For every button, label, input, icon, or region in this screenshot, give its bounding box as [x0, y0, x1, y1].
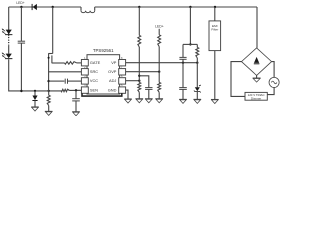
svg-text:LED+: LED+ — [155, 25, 164, 29]
wire R3 upper — [48, 91, 50, 95]
wire VP feed down — [189, 7, 191, 44]
wire R6 upper — [158, 29, 160, 35]
wire C4 upper — [182, 63, 184, 88]
bridge rectifier diamond — [242, 48, 272, 76]
wire top rail down to bridge — [256, 7, 258, 48]
pin box GATE — [81, 60, 88, 66]
wire VCC branch left — [49, 80, 65, 82]
wire GND pin — [126, 90, 128, 99]
capacitor C_vcc — [64, 79, 66, 84]
junction SEN node — [75, 89, 77, 91]
wire R7 lower — [158, 92, 160, 98]
resistor R3 — [47, 95, 50, 105]
ground below EMI filter — [211, 98, 219, 100]
resistor R4 — [138, 35, 141, 47]
wire bridge right to AC — [272, 62, 275, 78]
ground below C_sen — [72, 111, 80, 113]
dotted continuation of LED string — [8, 37, 9, 38]
wire R_sen to SEN node — [69, 89, 81, 91]
wire SEN cap lower — [75, 101, 77, 112]
wire EMI lower — [214, 51, 216, 100]
junction rail / D2 — [34, 90, 36, 92]
wire C1 lower — [20, 43, 22, 91]
capacitor C2 — [145, 87, 152, 89]
ground below GND pin — [124, 98, 132, 100]
wire C3 to VP row — [182, 59, 184, 62]
ground below C2 — [145, 98, 153, 100]
zener diode D3 — [195, 87, 200, 91]
resistor R6 — [158, 35, 161, 47]
wire R5 lower — [138, 92, 140, 98]
svg-text:OVP: OVP — [108, 69, 117, 74]
wire top rail left segment — [9, 6, 81, 8]
svg-text:VP: VP — [111, 60, 117, 65]
wire R_gate to GATE pin — [77, 62, 82, 64]
ground below C4 — [179, 98, 187, 100]
wire top rail right segment — [95, 6, 257, 8]
wire bridge bottom — [256, 75, 258, 78]
wire SEN cap upper — [75, 90, 77, 98]
junction C1 / bottom rail — [20, 90, 22, 92]
resistor R7 — [158, 82, 161, 92]
wire EMI upper — [214, 7, 216, 21]
junction top rail / C1 — [20, 6, 22, 8]
capacitor C1 — [18, 40, 25, 42]
wire VP feed split bar — [183, 43, 197, 45]
wire R4 lower — [138, 47, 140, 81]
wire R3 lower — [48, 106, 50, 112]
svg-text:LED+: LED+ — [16, 1, 24, 5]
junction ADJ / divider — [138, 80, 140, 82]
diode D1 on top rail — [31, 4, 33, 10]
wire C3 upper — [182, 44, 184, 57]
wire C1 upper — [20, 7, 22, 41]
svg-text:Dimmer: Dimmer — [251, 96, 261, 100]
pin box OVP — [119, 69, 126, 75]
bridge diode symbol — [254, 57, 259, 63]
ground below R3 — [45, 110, 53, 112]
wire zener lower — [196, 92, 198, 100]
pin box SEN — [81, 87, 88, 93]
junction R4 / C2 branch — [138, 75, 140, 77]
wire D2 lower — [34, 101, 36, 107]
junction VP / C_vp — [182, 62, 184, 64]
ground below D2 — [31, 106, 39, 108]
svg-text:VCC: VCC — [90, 78, 98, 83]
wire Q1 drain — [52, 7, 54, 54]
wire source down to rail — [48, 72, 50, 91]
pin box GND — [119, 87, 126, 93]
resistor R8 — [196, 47, 199, 58]
svg-text:SEN: SEN — [90, 87, 98, 92]
svg-text:Filter: Filter — [211, 28, 218, 32]
pin box SRC — [81, 69, 88, 75]
svg-text:GND: GND — [108, 87, 117, 92]
pin box VP — [119, 60, 126, 66]
junction top rail / VP feed — [189, 6, 191, 8]
wire Q1 source to SRC pin — [49, 71, 82, 73]
junction top rail / EMI — [214, 6, 216, 8]
svg-text:SRC: SRC — [90, 69, 98, 74]
resistor R_gate — [65, 62, 77, 65]
LED D_led1 — [6, 30, 12, 35]
wire AC to dimmer — [267, 88, 274, 95]
pin box VCC — [81, 78, 88, 84]
wire C2 lower — [148, 89, 150, 98]
junction top rail / Q1 drain — [52, 6, 54, 8]
wire ADJ row — [126, 80, 140, 82]
LED D_led2 — [6, 54, 12, 59]
node Q1 body — [48, 57, 50, 59]
ground below R5 — [136, 98, 144, 100]
capacitor C_sen — [72, 98, 80, 100]
junction OVP / divider — [158, 71, 160, 73]
wire zener upper — [196, 63, 198, 88]
wire ADJ to R5 — [138, 81, 140, 83]
transistor Q1 — [49, 53, 53, 55]
wire bridge left to dimmer — [231, 62, 245, 97]
wire LED string lower — [8, 46, 10, 54]
svg-text:TPS92561: TPS92561 — [93, 48, 114, 53]
resistor R_sen — [61, 89, 69, 92]
junction source / VCC branch — [47, 80, 49, 82]
TRIAC dimmer box — [245, 92, 267, 100]
wire VP row — [126, 62, 198, 64]
svg-text:ADJ: ADJ — [109, 78, 116, 83]
node LED+ top-left corner — [8, 7, 10, 36]
wire OVP to R7 — [158, 72, 160, 83]
wire C4 lower — [182, 89, 184, 99]
wire VCC branch right — [68, 80, 82, 82]
junction VP / zener — [196, 62, 198, 64]
wire R4 upper — [138, 7, 140, 35]
junction top rail / R4 — [138, 6, 140, 8]
diode D2 — [32, 96, 37, 101]
wire LED string to bottom rail — [9, 59, 61, 91]
inductor L1 on top rail — [80, 7, 82, 11]
op-amp U1 TPS92561 outline — [87, 55, 120, 94]
ground below R7 — [155, 98, 163, 100]
svg-text:GATE: GATE — [90, 60, 101, 65]
resistor R5 — [138, 82, 141, 92]
capacitor C4 — [179, 87, 187, 89]
junction VP feed split — [189, 43, 191, 45]
ground below D3 — [194, 98, 202, 100]
wire R8 upper — [196, 44, 198, 47]
AC source V1 — [269, 77, 279, 87]
wire OVP row — [126, 71, 160, 73]
wire D2 upper — [34, 91, 36, 96]
wire thermal pad to GND (thick) — [82, 93, 122, 96]
EMI filter box — [209, 21, 221, 51]
ground below bridge — [253, 77, 261, 79]
wire R6 to OVP — [158, 47, 160, 72]
wire R8 to VP row — [196, 58, 198, 63]
capacitor C3 — [179, 56, 186, 58]
wire C2 branch — [139, 76, 149, 88]
junction rail / R3 — [48, 90, 50, 92]
pin box ADJ — [119, 78, 126, 84]
